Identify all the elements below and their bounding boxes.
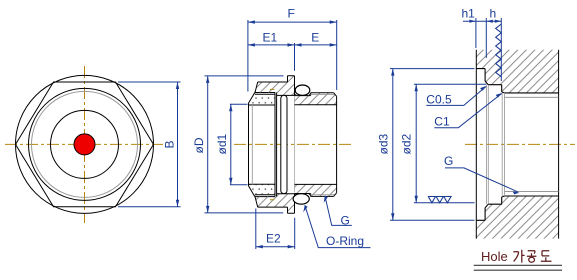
hex flange + collar section hatch (bottom) [255,194,295,214]
bore circle [51,110,119,178]
surface finish marks [428,197,452,203]
thread circle (gray) [32,91,138,197]
red center hole [74,134,95,155]
svg-text:øD: øD [192,137,206,153]
small orange marks on hex [270,89,274,199]
svg-text:O-Ring: O-Ring [326,234,364,248]
dimension h1/h line [463,20,501,22]
dimension E2 extension lines [256,209,295,250]
dimension od3 line [392,69,394,221]
svg-text:C1: C1 [434,115,450,129]
dimension B extension lines [118,82,181,207]
leader C0.5 [426,87,486,106]
dimension od2 extension lines [414,84,487,203]
dimension B line [177,82,179,207]
svg-text:G: G [444,154,453,168]
dimension oD line [207,76,209,213]
svg-text:E: E [311,30,319,44]
thread root line top (gray) [311,93,335,95]
dimension od2 line [415,84,417,203]
dimension F extension lines [248,20,337,92]
dimension od1 extension lines [230,104,248,185]
counterbore profile (top) [476,69,558,93]
o-ring circle [29,88,141,200]
threaded body section hatch (top) [295,93,337,105]
thread zigzag symbol [496,24,502,77]
leader O-Ring [305,205,371,247]
knurled nut bottom band (dots) [249,184,275,194]
counterbore profile (bottom) [476,196,558,220]
groove corner marks [295,94,310,196]
end face [336,96,338,193]
hex right face edge [276,93,278,197]
hangul ga-gong-do (drawn strokes) [513,250,551,263]
panel left face [475,50,477,239]
centerline horizontal (hole view) [465,143,575,145]
svg-text:ød2: ød2 [400,133,414,154]
svg-text:E2: E2 [266,231,281,245]
knurled nut top band (dots) [249,95,275,105]
svg-text:G: G [341,213,350,227]
threaded body section hatch (bottom) [295,184,337,196]
O-ring bottom [293,194,309,204]
thread crest lines (hole) [504,97,558,191]
gasket capsule [281,95,287,193]
dimension oD extension lines [205,76,284,213]
centerline horizontal (front view) [5,143,163,145]
hex flange + collar section hatch (top) [255,76,295,96]
dimension od1 line [230,104,232,185]
panel section hatch (bottom) [476,196,558,239]
threaded body outline (bottom) [295,184,337,196]
svg-text:Hole: Hole [481,249,508,264]
dimension E1/E line [248,44,337,46]
svg-text:h: h [490,7,497,21]
dimension E2 line [256,246,295,248]
thread root line bottom (gray) [311,194,335,196]
hex flange + collar outline (bottom) [255,194,295,214]
svg-text:F: F [288,7,295,21]
svg-text:h1: h1 [462,7,476,21]
collar hidden edge through bore (gray) [294,97,296,193]
outer circle (collar dia) [16,75,154,213]
centerline horizontal (section view) [234,143,354,145]
knurl hidden bore line (gray) [251,105,253,184]
hexagon [16,82,154,207]
leader C1 [434,94,501,128]
centerline vertical (front view) [84,66,86,223]
leader G (section view) [325,196,352,226]
dimension h1/h extension lines [476,18,501,81]
panel section hatch (top) [476,50,558,93]
svg-text:ød1: ød1 [215,133,229,154]
panel right face [558,50,560,239]
knurled nut outline [249,93,276,197]
leader G (hole view) [445,168,518,192]
svg-text:E1: E1 [263,30,278,44]
svg-text:ød3: ød3 [377,133,391,154]
O-ring top [295,85,310,95]
dimension E1/E middle extension [294,43,296,71]
hex flange + collar outline (top) [255,76,295,96]
threaded body outline (top) [295,93,337,105]
dimension od3 extension lines [390,69,475,221]
title underline double [474,265,562,270]
hidden edges through hole (gray) [487,85,489,204]
svg-text:C0.5: C0.5 [426,92,452,106]
dimension F line [248,21,337,23]
svg-text:B: B [163,140,177,148]
